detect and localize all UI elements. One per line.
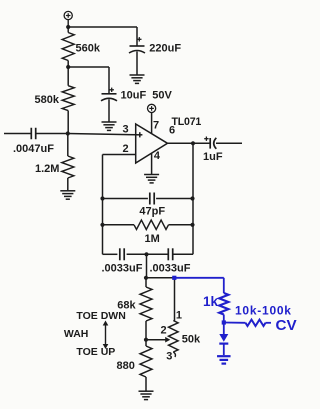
wire C3 to node C xyxy=(37,133,68,135)
svg-text:2: 2 xyxy=(161,325,167,337)
op-amp noninverting + marker xyxy=(137,132,142,137)
capacitor C5 47pF xyxy=(139,193,165,218)
capacitor C4 1uF xyxy=(203,137,223,164)
wire node A to 220uF xyxy=(68,26,137,28)
svg-text:10uF 50V: 10uF 50V xyxy=(121,90,173,102)
capacitor C6 .0033uF left xyxy=(102,248,143,274)
node E mid caps xyxy=(144,252,148,256)
op-amp U1 TL071 triangle xyxy=(136,116,202,163)
ground under 10uF xyxy=(102,122,117,130)
capacitor C2 10uF xyxy=(101,88,173,122)
label WAH xyxy=(64,328,89,340)
wire wiper xyxy=(146,337,170,343)
wire down to 220uF xyxy=(136,27,138,46)
node blue junction CV xyxy=(222,320,226,324)
diode D1 zener blue xyxy=(219,323,228,356)
resistor R6 880 xyxy=(117,340,153,391)
wire op-amp output xyxy=(168,142,210,144)
wire 47pF line right xyxy=(156,198,193,200)
svg-text:.0033uF: .0033uF xyxy=(102,262,143,274)
power +V supply pin 7 xyxy=(148,104,156,112)
wire right feedback bus xyxy=(173,143,193,254)
svg-text:1M: 1M xyxy=(145,233,160,245)
node blue junction left xyxy=(172,276,176,280)
node right bus upper xyxy=(190,196,194,200)
svg-text:580k: 580k xyxy=(35,94,60,106)
wire node F right xyxy=(146,277,174,279)
node C input junction xyxy=(66,131,70,135)
pin 7 label xyxy=(153,120,159,132)
wire pin 2 xyxy=(103,155,136,255)
svg-text:47pF: 47pF xyxy=(139,206,165,218)
node G wiper junction xyxy=(144,338,148,342)
node B junction xyxy=(66,65,70,69)
svg-text:4: 4 xyxy=(154,150,161,162)
label TOE UP xyxy=(76,346,115,358)
resistor R2 580k xyxy=(35,67,75,134)
wire node C to op-amp pin 3 xyxy=(68,134,138,135)
svg-text:10k-100k: 10k-100k xyxy=(235,303,292,317)
resistor R8 10k-100k CV xyxy=(224,303,298,334)
ground under 1.2M xyxy=(60,191,75,199)
svg-text:TL071: TL071 xyxy=(172,116,202,128)
svg-text:6: 6 xyxy=(169,125,175,137)
svg-text:1.2M: 1.2M xyxy=(35,163,59,175)
resistor R3 1.2M xyxy=(35,134,74,191)
svg-text:WAH: WAH xyxy=(64,328,89,340)
svg-text:TOE UP: TOE UP xyxy=(76,346,115,358)
svg-text:560k: 560k xyxy=(76,43,101,55)
node A junction top xyxy=(66,25,70,29)
power +V supply top xyxy=(64,11,72,27)
capacitor C1 220uF xyxy=(129,37,181,74)
svg-text:.0047uF: .0047uF xyxy=(13,143,54,155)
svg-text:7: 7 xyxy=(153,120,159,132)
wah direction arrow xyxy=(103,321,109,350)
capacitor C7 .0033uF right xyxy=(150,248,191,274)
pin 4 label xyxy=(154,150,161,162)
pin 3 label xyxy=(123,124,129,136)
potentiometer VR1 50k xyxy=(169,278,202,357)
pot pin 3 label xyxy=(166,350,172,362)
svg-text:1uF: 1uF xyxy=(203,151,223,163)
pot pin 1 label xyxy=(176,310,182,322)
svg-text:TOE DWN: TOE DWN xyxy=(76,310,125,322)
resistor R1 560k xyxy=(62,27,101,67)
node left bus upper xyxy=(100,196,104,200)
svg-text:220uF: 220uF xyxy=(149,43,181,55)
wire pin 7 xyxy=(151,113,153,134)
node F junction 68k xyxy=(144,276,148,280)
wire 47pF line left xyxy=(103,198,148,200)
resistor R5 68k xyxy=(117,278,152,340)
svg-text:.0033uF: .0033uF xyxy=(150,262,191,274)
svg-text:3: 3 xyxy=(166,350,172,362)
svg-text:3: 3 xyxy=(123,124,129,136)
svg-text:50k: 50k xyxy=(182,333,201,345)
wire input left xyxy=(4,133,31,135)
pot pin 2 label xyxy=(161,325,167,337)
wire output right xyxy=(216,142,242,144)
pin 6 label xyxy=(169,125,175,137)
pin 2 label xyxy=(123,143,129,155)
svg-text:CV: CV xyxy=(276,317,298,334)
svg-text:1: 1 xyxy=(176,310,182,322)
wire pin 4 to ground xyxy=(151,153,153,174)
resistor R7 1k blue xyxy=(203,293,228,323)
ground under 880 xyxy=(139,391,154,399)
node D output junction xyxy=(191,141,195,145)
node left bus lower xyxy=(100,223,104,227)
node right bus lower xyxy=(190,223,194,227)
svg-text:2: 2 xyxy=(123,143,129,155)
wire .0033 line left xyxy=(103,253,118,255)
wire between caps xyxy=(127,253,169,255)
svg-text:880: 880 xyxy=(117,360,135,372)
ground under 220uF xyxy=(130,75,145,83)
label TOE DWN xyxy=(76,310,125,322)
wire blue CV feed xyxy=(174,278,224,293)
wire node B to 10uF xyxy=(68,67,109,94)
svg-text:1k: 1k xyxy=(203,294,219,309)
resistor R4 1M xyxy=(103,220,194,245)
ground blue xyxy=(217,356,231,363)
wire node E down xyxy=(146,254,148,277)
ground under op-amp pin 4 xyxy=(144,175,159,183)
capacitor C3 .0047uF xyxy=(13,128,54,155)
